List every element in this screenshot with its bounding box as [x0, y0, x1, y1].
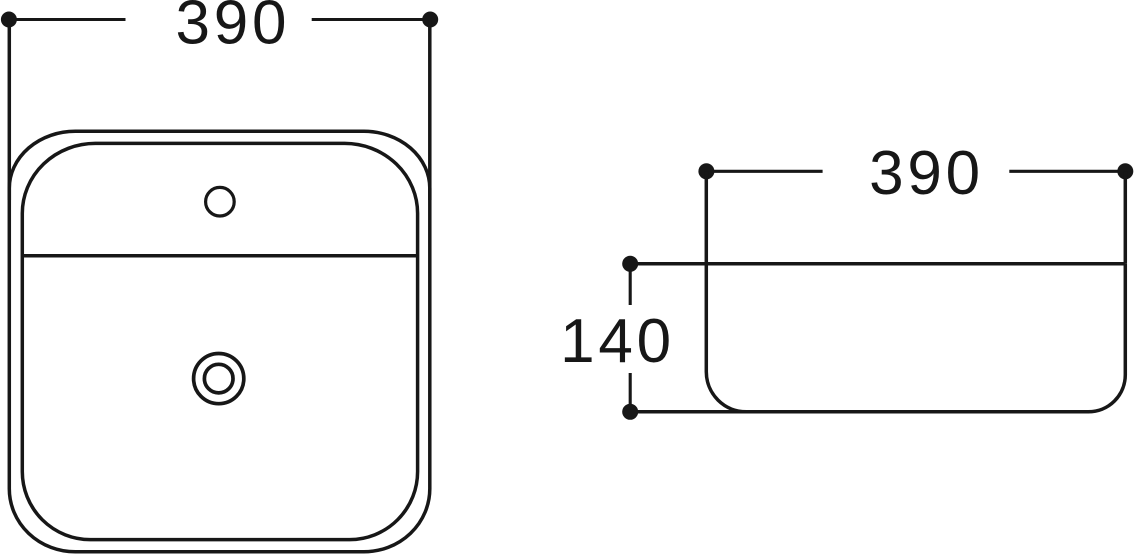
side view: extension line right [1124, 171, 1128, 263]
svg-text:390: 390 [869, 139, 984, 208]
side view: dimension line 390 right segment [1009, 170, 1125, 173]
side view: 140 dimension line lower segment [629, 373, 632, 412]
top view: drain inner circle [204, 364, 233, 393]
top view: dimension line 390 right segment [312, 18, 431, 21]
top view: deck separation line [22, 254, 417, 258]
top view: dimension dot right [422, 12, 438, 28]
side view: dimension dot right [1117, 163, 1133, 179]
top view: dimension dot left [1, 12, 17, 28]
top view: basin inner bowl edge [22, 143, 417, 539]
side view: 140 dimension line upper segment [629, 264, 632, 305]
side view: basin body outline [706, 264, 1125, 412]
side view: extension line left [705, 171, 709, 263]
side view: bottom extension line [630, 410, 746, 414]
svg-text:140: 140 [560, 307, 675, 376]
top view: dimension line 390 left segment [9, 18, 126, 21]
side view: dimension dot left [698, 163, 714, 179]
side view: rim top line [630, 262, 1125, 266]
svg-text:390: 390 [175, 0, 290, 58]
top view: extension line right [428, 20, 432, 201]
side view: dimension line 390 left segment [706, 170, 822, 173]
top view: basin outer rim [9, 131, 430, 552]
top view: drain outer circle [194, 354, 244, 404]
top view: extension line left [8, 20, 12, 201]
side view: 140 dimension dot bottom [622, 404, 638, 420]
top view: faucet hole [206, 187, 235, 216]
side view: 140 dimension dot top [622, 256, 638, 272]
